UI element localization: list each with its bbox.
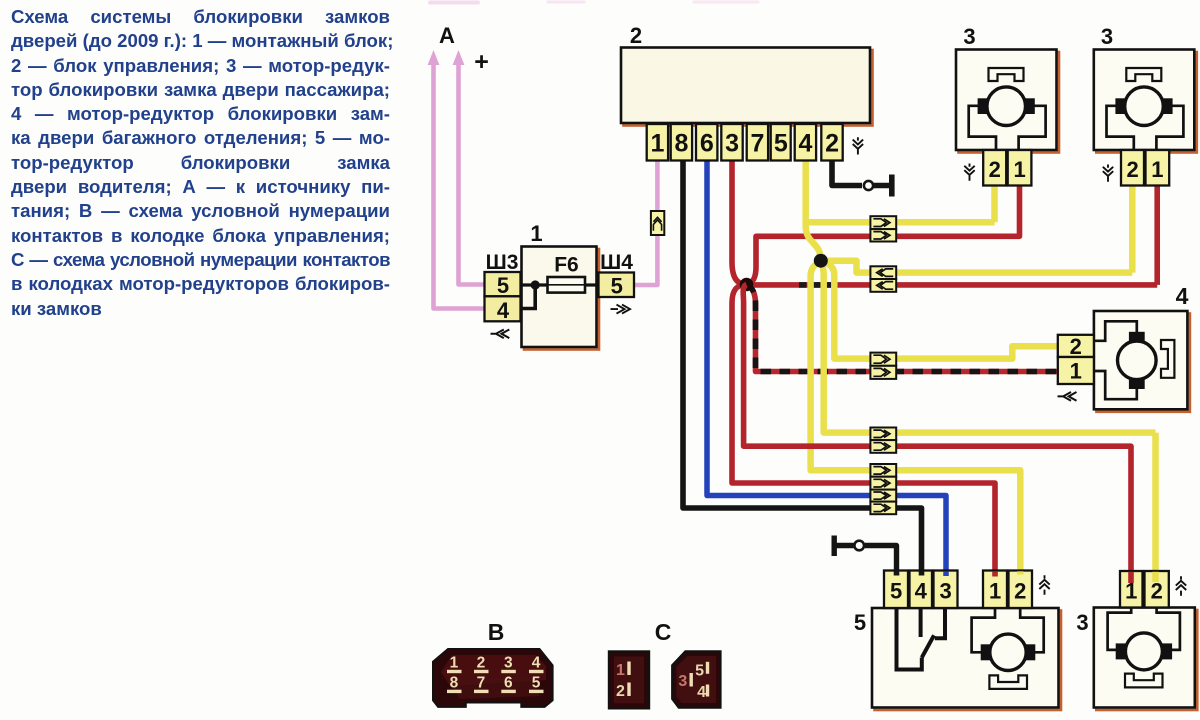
svg-text:3: 3 <box>939 579 951 604</box>
connector view C piece 1 body <box>609 652 649 709</box>
inline connector pair B cell red <box>870 279 896 292</box>
bolt stem and bar at block2 ground <box>874 175 892 197</box>
continuation arrows below Ш3 <box>491 330 510 339</box>
svg-text:1: 1 <box>616 662 625 679</box>
wire red junction right to rear-door motor 3 pin1 <box>747 186 1157 285</box>
svg-text:1: 1 <box>1013 157 1025 182</box>
svg-text:3: 3 <box>963 24 975 49</box>
svg-text:4: 4 <box>497 298 510 323</box>
motor 3c cap bracket <box>1125 674 1163 688</box>
wire black body bolt to box5 pin5 <box>834 536 896 572</box>
control unit U2 box <box>621 48 873 126</box>
motor 4 frame bottom <box>1095 371 1137 399</box>
inline connector stack E cell red <box>870 477 896 490</box>
box5 switch pin3 contact <box>935 608 945 638</box>
continuation arrows below lock4 pin1 <box>1058 392 1077 401</box>
svg-text:+: + <box>474 48 489 76</box>
inline connector stack E cell black <box>870 502 896 515</box>
svg-text:1: 1 <box>530 221 542 246</box>
motor 3b left brush <box>1115 98 1125 114</box>
junction node red <box>740 278 754 292</box>
motor 5 right brush <box>1026 644 1036 660</box>
svg-text:4: 4 <box>915 579 928 604</box>
svg-text:6: 6 <box>700 130 714 158</box>
motor 3b frame right <box>1156 106 1183 150</box>
wire red junction up to passenger motor 3 pin1 <box>747 186 1020 285</box>
shield symbol up at box5 pin2 <box>1039 575 1049 594</box>
svg-text:5: 5 <box>890 579 902 604</box>
inline connector pair C cell yellow <box>870 353 896 366</box>
shield symbol up at motor 3c pin2 <box>1176 576 1186 595</box>
motor 3b cap bracket <box>1126 68 1161 81</box>
svg-text:2: 2 <box>477 655 486 672</box>
arrowhead A left <box>428 50 440 65</box>
svg-text:5: 5 <box>497 273 509 298</box>
wire yellow node to rear-door motor 3 pin2 <box>821 186 1133 273</box>
motor 3c armature circle <box>1125 633 1162 670</box>
wire pink block1 Ш4-5 to block2 pin1 <box>634 161 657 286</box>
fuse F6 body <box>548 277 586 293</box>
svg-text:2: 2 <box>1151 579 1163 604</box>
motor 5 cap bracket <box>989 675 1027 689</box>
block2 pin 2 <box>821 124 842 161</box>
wire black block2 pin8 to box5 pin4 via connector <box>683 161 922 572</box>
motor 5 frame left <box>972 608 995 652</box>
motor 3a frame left <box>969 106 996 150</box>
connector B pin 1-4 contact bars <box>447 670 544 673</box>
motor 3b frame left <box>1107 106 1134 150</box>
svg-text:1: 1 <box>1151 157 1163 182</box>
inline connector on pink wire <box>651 211 664 235</box>
wire yellow block2 pin4 to yellow junction node <box>806 161 821 261</box>
wire red junction down to driver-door motor 3 pin1 <box>743 285 1131 572</box>
mounting block internal wire junction to Ш3-4 <box>521 285 536 309</box>
continuation arrows at Ш4 <box>611 305 631 314</box>
shield symbol at motor 3b <box>1103 165 1113 182</box>
motor 3c left brush <box>1116 643 1126 659</box>
block2 pin 8 <box>671 124 692 161</box>
svg-text:F6: F6 <box>554 254 579 277</box>
svg-text:3: 3 <box>1101 24 1113 49</box>
svg-text:7: 7 <box>751 130 765 158</box>
wire yellow node to box5 pin2 <box>811 261 1021 571</box>
svg-text:2: 2 <box>1126 157 1138 182</box>
motor 3c pin 1 <box>1120 571 1143 608</box>
svg-text:4: 4 <box>697 684 706 701</box>
mounting block internal wire Ш3-5 to fuse <box>521 283 549 286</box>
box5 switch wire from pin5 <box>897 608 922 670</box>
wire black-red dashed junction to lock 4 pin1 <box>747 285 1058 372</box>
motor 3a pin 1 <box>1008 150 1032 186</box>
box5 pin 5 <box>884 571 908 609</box>
trunk lock motor-reductor 4 box <box>1094 311 1190 412</box>
wire yellow node to driver-door motor 3 pin2 <box>821 261 1156 571</box>
connector B pin numbers row 2 <box>450 675 541 692</box>
svg-text:1: 1 <box>1070 359 1082 384</box>
motor 4 bottom brush <box>1129 379 1145 389</box>
arrowhead A right <box>453 50 465 65</box>
motor 5 left brush <box>981 644 991 660</box>
driver door motor-reductor 5 box <box>872 608 1061 710</box>
box5 switch blade <box>922 635 934 657</box>
inline connector pair B cell yellow <box>870 266 896 279</box>
motor 3a right brush <box>1025 98 1035 114</box>
svg-text:2: 2 <box>825 130 839 158</box>
connector C1 pin numbers and bars <box>616 662 631 701</box>
motor 3a armature circle <box>987 87 1026 126</box>
wire blue block2 pin6 to box5 pin3 via connector <box>707 161 946 572</box>
connector C2 pin numbers and bars <box>678 662 709 701</box>
inline connector pair A cell yellow <box>870 216 896 229</box>
wire pink feed A to block1 pin Ш3-5 <box>459 58 485 285</box>
svg-text:C: C <box>655 619 672 645</box>
motor 3b pin 2 <box>1121 150 1144 186</box>
svg-text:8: 8 <box>675 130 689 158</box>
inline connector pair D cell yellow <box>870 428 896 441</box>
svg-text:5: 5 <box>611 274 623 299</box>
wire stubs entering pin boxes <box>897 571 1156 583</box>
svg-text:4: 4 <box>799 130 813 158</box>
svg-text:2: 2 <box>616 683 625 700</box>
pin box Ш3-5 <box>485 272 521 298</box>
passenger door motor-reductor 3a box <box>956 50 1059 153</box>
box5 pin 2 <box>1009 571 1033 609</box>
svg-text:3: 3 <box>678 673 687 690</box>
lock4 pin 1 <box>1058 357 1094 384</box>
svg-text:3: 3 <box>1076 610 1088 635</box>
svg-text:2: 2 <box>1014 579 1026 604</box>
svg-text:2: 2 <box>1070 334 1082 359</box>
mounting block U1 box <box>522 247 600 350</box>
black stripe dashes on red wire <box>799 282 841 288</box>
motor 4 cap bracket <box>1161 340 1174 378</box>
box5 pin 1 <box>983 571 1007 609</box>
motor 3c right brush <box>1163 643 1173 659</box>
wire red junction down to box5 pin1 via connector <box>732 285 995 572</box>
connector view C piece 2 body <box>672 652 720 708</box>
motor 3b pin 1 <box>1146 150 1170 186</box>
svg-text:5: 5 <box>774 130 788 158</box>
inline connector pair C cell black-red <box>870 366 896 379</box>
motor 4 top brush <box>1129 332 1145 342</box>
motor 5 frame right <box>1020 608 1043 652</box>
svg-text:1: 1 <box>989 579 1001 604</box>
block2 pin 1 <box>647 124 668 161</box>
svg-text:3: 3 <box>725 130 739 158</box>
svg-text:1: 1 <box>450 655 459 672</box>
wire yellow branch to passenger motor 3 pin2 <box>806 186 995 222</box>
scan artifacts top edge <box>430 0 758 5</box>
svg-text:8: 8 <box>450 675 459 692</box>
block2 pin 6 <box>696 124 717 161</box>
motor 3b right brush <box>1163 98 1173 114</box>
bolt circle at box5 ground <box>854 541 864 551</box>
svg-text:4: 4 <box>532 655 541 672</box>
box5 pin 4 <box>910 571 933 609</box>
box5 switch pin4 stub <box>919 608 923 637</box>
motor 3c pin 2 <box>1145 571 1169 608</box>
connector view B body <box>433 649 553 707</box>
inline connector stack E cell yellow <box>870 464 896 477</box>
driver side rear motor-reductor 3c box <box>1094 608 1198 711</box>
wire black block2 pin2 to body bolt <box>832 161 862 186</box>
motor 3a pin 2 <box>983 150 1006 186</box>
inline connector pair A cell red <box>870 229 896 241</box>
connector B pin numbers row 1 <box>450 655 541 672</box>
svg-text:4: 4 <box>1176 283 1189 309</box>
svg-text:5: 5 <box>695 663 704 680</box>
wire pink feed A to block1 pin Ш3-4 <box>434 58 485 309</box>
connector B pin 5-8 contact bars <box>447 690 544 693</box>
svg-text:A: A <box>439 23 455 48</box>
svg-text:2: 2 <box>989 157 1001 182</box>
wire yellow node to lock 4 pin2 <box>821 261 1058 359</box>
motor 5 armature circle <box>990 634 1026 670</box>
wire red block2 pin3 down to junction <box>732 161 747 285</box>
motor 3b armature circle <box>1125 87 1164 126</box>
legend text block <box>11 5 390 321</box>
svg-text:5: 5 <box>854 610 866 635</box>
bolt circle at block2 ground <box>864 181 873 190</box>
motor 4 frame top <box>1095 321 1137 341</box>
motor 3c frame left <box>1108 608 1132 650</box>
pin box Ш4-5 <box>599 273 635 299</box>
inline connector pair D cell red <box>870 440 896 453</box>
motor 4 armature circle <box>1118 341 1157 380</box>
svg-text:2: 2 <box>630 23 642 48</box>
mounting block internal wire fuse to Ш4-5 <box>585 283 599 286</box>
svg-text:7: 7 <box>477 675 486 692</box>
block2 pin 4 <box>795 124 816 161</box>
mounting block internal junction dot <box>531 280 540 289</box>
lock4 pin 2 <box>1058 334 1094 359</box>
box5 pin 3 <box>934 571 958 609</box>
svg-text:1: 1 <box>651 130 665 158</box>
shield symbol at motor 3a <box>964 164 974 181</box>
svg-text:5: 5 <box>532 675 541 692</box>
svg-text:Ш3: Ш3 <box>486 251 519 274</box>
shield symbol at block2 pin2 <box>853 137 863 154</box>
motor 3a cap bracket <box>989 68 1024 81</box>
svg-text:Ш4: Ш4 <box>600 251 633 274</box>
svg-text:B: B <box>488 619 505 645</box>
junction node yellow <box>814 254 828 268</box>
svg-text:3: 3 <box>504 655 513 672</box>
inline connector stack E cell blue <box>870 490 896 502</box>
motor 3a frame right <box>1019 106 1046 150</box>
motor 3a left brush <box>978 98 988 114</box>
pin box Ш3-4 <box>485 296 521 323</box>
motor 3c frame right <box>1157 608 1180 650</box>
block2 pin 5 <box>771 124 791 161</box>
block2 pin 7 <box>747 124 768 161</box>
block2 pin 3 <box>721 124 742 161</box>
svg-text:6: 6 <box>504 675 513 692</box>
rear passenger door motor-reductor 3b box <box>1094 50 1197 153</box>
